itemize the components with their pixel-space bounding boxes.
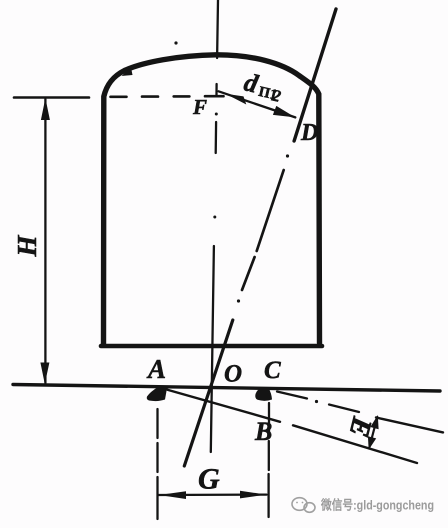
- point C collar mark: [255, 388, 272, 401]
- E arrow up: [370, 415, 378, 429]
- svg-text:E: E: [343, 413, 378, 440]
- E dimension line: [369, 417, 377, 448]
- svg-text:O: O: [224, 361, 242, 388]
- springing level dashed line (inside tunnel): [111, 95, 224, 98]
- svg-text:G: G: [198, 463, 220, 496]
- G left extension line: [156, 409, 158, 519]
- d dimension arrow (right): [273, 106, 295, 118]
- borehole axis: lower solid segment: [184, 320, 233, 466]
- d dimension line F to D: [219, 91, 296, 117]
- svg-text:H: H: [12, 235, 42, 258]
- svg-text:A: A: [146, 354, 166, 384]
- tunnel outline (walls + arch): [104, 55, 320, 345]
- watermark: [292, 498, 315, 513]
- vertical center line (dash-dot): [211, 0, 218, 452]
- center line dots: [215, 113, 218, 116]
- seam lower boundary line (from A): [163, 389, 280, 422]
- H dimension line: [44, 99, 46, 383]
- seam lower boundary line (right part): [293, 425, 417, 463]
- G arrow left: [159, 491, 186, 499]
- G arrow right: [240, 491, 267, 499]
- label d: [241, 68, 285, 106]
- watermark icon bubble 1: [292, 498, 307, 511]
- arch direction tick: [122, 68, 133, 77]
- H arrow down: [40, 363, 49, 385]
- svg-text:C: C: [264, 357, 281, 384]
- G dimension line: [159, 493, 267, 496]
- seam upper boundary solid (right of E): [376, 418, 443, 433]
- d dimension arrow (left): [226, 94, 247, 105]
- borehole axis: upper solid segment: [294, 9, 336, 141]
- svg-text:B: B: [254, 417, 272, 446]
- borehole axis: dash-dot middle: [242, 170, 284, 290]
- speck dot above arch: [174, 41, 177, 44]
- svg-text:微信号:gld-gongcheng: 微信号:gld-gongcheng: [320, 497, 434, 513]
- watermark icon bubble 2: [304, 503, 315, 513]
- seam upper boundary dash-dot (from C): [277, 392, 359, 413]
- tunnel floor line: [101, 344, 322, 349]
- point A collar mark: [147, 387, 167, 401]
- springing level line (solid, left of tunnel): [14, 96, 89, 99]
- E arrow down: [368, 436, 376, 450]
- ground line: [13, 385, 440, 392]
- svg-text:D: D: [300, 120, 318, 146]
- G right extension line (below B): [267, 403, 270, 517]
- H arrow up: [41, 98, 50, 120]
- svg-text:F: F: [192, 95, 207, 119]
